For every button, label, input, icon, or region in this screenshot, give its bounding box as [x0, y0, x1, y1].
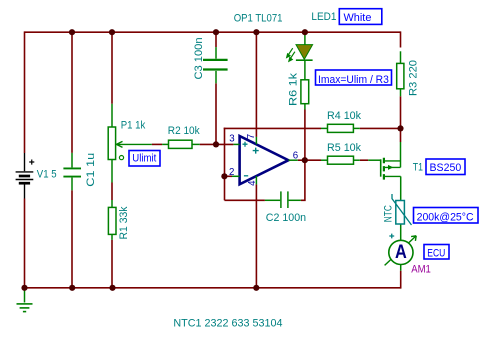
svg-text:ECU: ECU	[427, 247, 445, 259]
junction dot top rail x72	[69, 29, 75, 35]
junction dot pin 2	[221, 173, 227, 179]
battery V1 plate long 1	[16, 171, 34, 173]
wire left rail lower	[24, 199, 26, 288]
capacitor C3	[203, 47, 228, 83]
svg-text:LED1: LED1	[311, 11, 336, 23]
svg-text:NTC1 2322 633 53104: NTC1 2322 633 53104	[173, 317, 282, 329]
junction dot node B	[397, 125, 403, 131]
svg-text:OP1 TL071: OP1 TL071	[234, 13, 283, 25]
junction dot bottom rail x24	[21, 285, 27, 291]
LED LED1 emission arrows	[287, 48, 295, 61]
capacitor C2	[265, 191, 301, 208]
svg-text:White: White	[344, 12, 372, 24]
wire AM1 bottom to rail	[400, 271, 402, 289]
wire R3 top stub	[400, 31, 402, 47]
resistor R3	[400, 51, 402, 63]
svg-text:200k@25°C: 200k@25°C	[417, 211, 474, 223]
resistor R2	[162, 143, 168, 145]
wire feedback left vertical	[224, 128, 226, 201]
svg-text:3: 3	[229, 134, 234, 145]
svg-text:C2 100n: C2 100n	[266, 212, 306, 224]
node Ulimit circle	[119, 156, 123, 160]
svg-text:T1: T1	[413, 162, 423, 174]
svg-text:R6 1k: R6 1k	[287, 72, 299, 106]
svg-text:V1 5: V1 5	[37, 168, 57, 180]
wire R1 lower	[111, 240, 113, 288]
transistor T1 source-body tie	[400, 142, 402, 167]
wire R5 right to gate	[360, 159, 368, 161]
junction dot output node	[302, 157, 308, 163]
wire node A to pin 3	[216, 143, 233, 145]
capacitor C1	[63, 153, 81, 190]
svg-text:C3 100n: C3 100n	[193, 38, 205, 80]
ammeter AM1 circle	[389, 240, 413, 264]
wire C3 branch upper	[215, 31, 217, 47]
wire left rail upper	[24, 31, 26, 153]
transistor T1 drain lead	[384, 175, 401, 177]
wire R3 bottom to node B	[400, 96, 402, 128]
label box ECU	[424, 245, 449, 260]
LED LED1 triangle	[296, 45, 313, 60]
LED LED1 anode wire	[304, 35, 306, 45]
thermistor NTC1 body	[396, 201, 405, 225]
wire pin 6 to output node	[298, 159, 305, 161]
potentiometer P1 wiper	[116, 141, 151, 147]
svg-text:R3 220: R3 220	[407, 60, 419, 96]
label box BS250	[426, 159, 465, 175]
svg-text:A: A	[395, 242, 407, 263]
wire R6 bottom to output node	[304, 110, 306, 161]
battery V1 positive lead	[24, 153, 26, 171]
wire op-amp V- vertical	[255, 184, 257, 287]
wire top rail	[25, 31, 401, 33]
potentiometer P1 bottom stub	[111, 160, 113, 183]
op-amp plus marker pin7	[253, 148, 259, 154]
svg-text:AM1: AM1	[411, 264, 431, 276]
resistor R1	[111, 200, 113, 207]
svg-text:6: 6	[293, 151, 298, 162]
thermistor NTC1 diagonal	[392, 194, 412, 225]
label box White	[339, 9, 382, 25]
svg-text:NTC: NTC	[382, 205, 394, 222]
wire R4 right to R3 node	[360, 127, 401, 129]
wire T1 drain down to NTC and AM1	[400, 176, 402, 240]
svg-text:R1 33k: R1 33k	[118, 206, 130, 239]
wire wiper to R2	[152, 143, 162, 145]
op-amp pin 3 stub	[233, 143, 239, 145]
svg-text:R2 10k: R2 10k	[168, 125, 200, 137]
svg-text:C1 1u: C1 1u	[85, 153, 97, 187]
svg-text:BS250: BS250	[430, 162, 462, 174]
op-amp pin 2 stub	[232, 175, 240, 177]
potentiometer P1 body	[108, 127, 115, 160]
transistor T1 gate wire	[368, 159, 381, 161]
op-amp pin 4 stub	[255, 176, 257, 184]
label box Imax	[316, 70, 392, 85]
transistor T1 source lead	[384, 160, 401, 162]
svg-text:4: 4	[247, 180, 258, 186]
wire AM1 bottom stub	[400, 265, 402, 271]
svg-text:Ulimit: Ulimit	[132, 153, 156, 165]
svg-text:P1 1k: P1 1k	[121, 119, 146, 131]
label box Ulimit	[129, 151, 160, 167]
svg-text:R4 10k: R4 10k	[327, 110, 361, 122]
wire C1 branch lower	[71, 190, 73, 287]
battery V1 plate long 2	[16, 179, 34, 181]
battery V1 plate short 1	[19, 175, 30, 178]
svg-text:R5 10k: R5 10k	[327, 142, 361, 154]
resistor R4	[321, 127, 328, 129]
wire feedback top / R4 row left	[224, 127, 321, 129]
junction dot top rail x256	[253, 29, 259, 35]
op-amp pin 7 stub	[255, 137, 257, 144]
transistor T1 channel segments	[383, 158, 385, 180]
junction dot top rail x112	[109, 29, 115, 35]
ammeter AM1 arrow under circle	[385, 236, 417, 266]
wire bottom rail	[25, 287, 401, 289]
label box 200k@25C	[414, 208, 479, 224]
wire P1 to R1	[111, 183, 113, 201]
op-amp plus marker pin3	[243, 142, 248, 147]
transistor T1 body lead with arrow	[384, 166, 401, 168]
junction dot bottom rail x112	[109, 285, 115, 291]
potentiometer P1 top stub	[111, 104, 113, 127]
wire output node down to C2	[301, 160, 305, 200]
wire op-amp V+ vertical	[255, 31, 257, 136]
wire C1 branch upper	[71, 31, 73, 152]
wire node B to T1 drain	[400, 128, 402, 142]
ammeter AM1 plus marker	[389, 234, 394, 239]
LED LED1 cathode bar	[296, 59, 313, 61]
junction dot node A	[213, 141, 219, 147]
op-amp U1 triangle	[240, 136, 289, 184]
resistor R5	[321, 159, 328, 161]
wire feedback bottom left of C2	[225, 199, 265, 201]
junction dot bottom rail x72	[69, 285, 75, 291]
resistor R6	[304, 60, 306, 80]
wire C3 to node A	[215, 83, 217, 144]
junction dot top rail x216	[213, 29, 219, 35]
ground	[17, 288, 33, 312]
battery V1 negative lead	[24, 184, 26, 199]
battery V1 plus sign	[29, 160, 34, 165]
wire P1 branch upper	[111, 31, 113, 103]
svg-text:2: 2	[229, 167, 234, 178]
junction dot bottom rail x256	[253, 285, 259, 291]
junction dot top rail x305	[302, 29, 308, 35]
op-amp pin 6 stub	[289, 159, 298, 161]
op-amp minus marker pin2	[244, 175, 248, 177]
wire R2 right to node A	[200, 143, 216, 145]
battery V1 plate short 2	[19, 182, 30, 185]
wire output node to R5	[305, 159, 321, 161]
svg-text:Imax=Ulim / R3: Imax=Ulim / R3	[318, 74, 389, 86]
transistor T1 gate bar	[380, 159, 382, 176]
svg-text:7: 7	[246, 134, 257, 139]
wire pin 2 node	[224, 175, 232, 177]
